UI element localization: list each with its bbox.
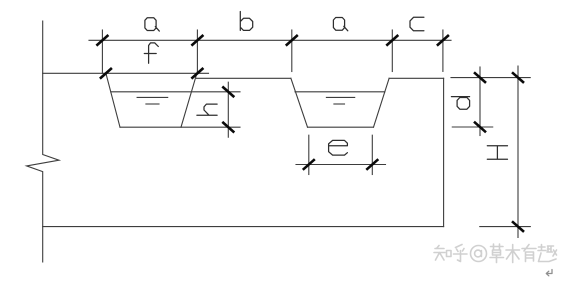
channel 2 water symbol	[326, 96, 354, 98]
extension line at x=197.4	[196, 30, 198, 73]
tick a-line x=102.4	[96, 35, 108, 46]
tick h top	[222, 87, 234, 98]
tick e left	[303, 159, 315, 170]
tick a-line x=392.3	[386, 35, 398, 46]
H dimension line	[517, 66, 519, 238]
H bottom extension line	[480, 226, 531, 228]
circled at	[471, 246, 487, 262]
label c (fourth span)	[410, 17, 424, 31]
extension line at x=102.4	[101, 30, 103, 73]
channel 2 right wall	[374, 78, 390, 127]
channel 2 left wall	[291, 78, 308, 127]
e dimension line	[296, 164, 386, 166]
bottom of section	[43, 226, 444, 228]
label f	[144, 43, 158, 63]
char hu	[454, 245, 468, 262]
char mu	[506, 245, 520, 263]
tick f-line x=105.9	[100, 68, 112, 79]
tick a-line x=291.8	[286, 35, 298, 46]
tick H bottom	[512, 221, 524, 232]
small return arrow bottom right	[546, 270, 552, 276]
label h (rotated 90)	[197, 104, 217, 115]
left border vertical with break	[27, 21, 59, 262]
tick h bottom	[222, 122, 234, 133]
label a (first span)	[145, 18, 159, 31]
channel 2 bottom	[308, 126, 374, 128]
watermark Zhihu @caomuyouqu	[434, 244, 557, 263]
char cao	[490, 244, 504, 263]
tick a-line x=442.9	[437, 35, 449, 46]
dimension ticks (45 degree architectural slashes)	[96, 35, 524, 232]
dimension line a/b/a/c (top)	[89, 39, 451, 41]
extension line at x=442.9	[442, 30, 444, 71]
tick d bottom	[474, 122, 486, 133]
right border of section	[443, 78, 445, 226]
tick H top	[512, 72, 524, 83]
tick e right	[366, 159, 378, 170]
extension line at x=392.3	[391, 30, 393, 72]
CAD-style letter labels	[144, 12, 507, 160]
channel 1 water symbol	[137, 96, 168, 98]
label H (rotated 90)	[487, 146, 507, 160]
extension line at x=291.8	[291, 30, 293, 72]
char qu	[538, 245, 557, 262]
top right extension line (ground level)	[451, 77, 530, 79]
label a (third span)	[333, 18, 347, 31]
label b (second span)	[240, 12, 252, 31]
tick d top	[474, 72, 486, 83]
main drawing thin lines	[27, 21, 531, 262]
char you	[522, 245, 536, 262]
h dimension line	[227, 82, 229, 137]
ground surface right	[389, 77, 444, 79]
tick a-line x=197.4	[191, 35, 203, 46]
channel 1 water line + h extension	[111, 91, 240, 93]
ground surface left + f dimension line	[43, 72, 209, 74]
ground surface between channels	[197, 77, 291, 79]
label e	[329, 140, 348, 155]
e extension lines	[308, 135, 310, 174]
channel 2 water line	[295, 91, 385, 93]
d dimension line	[479, 67, 481, 136]
tick f-line x=197.4	[191, 68, 203, 79]
channel 1 bottom + h extension	[120, 126, 240, 128]
label d (rotated 90)	[451, 97, 469, 110]
channel 1 left wall	[106, 73, 120, 127]
char zhi	[434, 246, 445, 261]
d bottom extension line	[452, 126, 492, 128]
channel 1 right wall	[181, 72, 197, 128]
